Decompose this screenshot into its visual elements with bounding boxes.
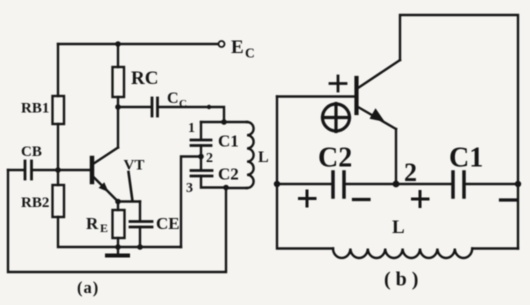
label CB: [21, 144, 42, 160]
svg-text:R: R: [86, 214, 99, 233]
label RB1: [21, 101, 49, 117]
wire main rail right segment (b): [465, 183, 518, 185]
leader line from VT label: [129, 172, 133, 201]
inductor L (b): [333, 249, 472, 259]
capacitor C2 (a): [191, 171, 212, 177]
capacitor C2 (b): [333, 172, 344, 197]
wire C1 to node 2: [200, 146, 202, 171]
label plus right of node 2: [413, 192, 429, 207]
svg-text:C1: C1: [449, 143, 483, 174]
label C2 (b): [318, 143, 352, 174]
svg-text:3: 3: [186, 181, 193, 196]
wire CB left plate to left rail: [8, 169, 24, 171]
svg-text:C2: C2: [318, 143, 352, 174]
terminal EC: [219, 41, 225, 47]
label RB2: [21, 195, 49, 211]
node 3 junction: [223, 185, 229, 191]
resistor RB1: [53, 96, 65, 124]
source polarity circle: [323, 104, 350, 132]
label plus at base: [330, 76, 346, 91]
label minus right of C2: [354, 198, 370, 201]
wire collector to CC: [118, 106, 151, 108]
wire L bottom to node 3: [226, 187, 247, 189]
label EC: [231, 37, 255, 61]
node left rail (b): [274, 181, 280, 187]
node small dot on CC wire: [207, 105, 211, 109]
wire RC bottom to collector: [117, 97, 119, 148]
capacitor C1 (b): [453, 172, 464, 197]
label RC: [131, 68, 158, 89]
ground: [107, 247, 128, 256]
transistor (b): [357, 60, 401, 129]
node RE ground: [115, 244, 121, 250]
wire left down-and-bottom loop to node 3: [8, 170, 226, 272]
label VT: [124, 158, 145, 174]
wire node2 to ground rail: [181, 157, 201, 248]
label L (b): [392, 217, 405, 238]
wire RB1 top: [57, 44, 59, 96]
wire collector loop (b): [400, 15, 518, 249]
wire C2 to node 3: [201, 176, 226, 188]
wire left branch (b): [276, 97, 278, 185]
svg-text:C1: C1: [218, 132, 239, 151]
wire CE top: [139, 202, 141, 222]
label 2 (a): [206, 151, 213, 166]
label (a): [77, 278, 99, 297]
node right rail (b): [515, 181, 521, 187]
svg-text:C2: C2: [218, 165, 239, 184]
svg-text:1: 1: [188, 121, 195, 136]
label 3: [186, 181, 193, 196]
node 2 (a): [198, 154, 204, 160]
svg-text:E: E: [100, 221, 108, 235]
svg-text:2: 2: [206, 151, 213, 166]
label CE: [156, 214, 180, 233]
svg-text:2: 2: [404, 158, 417, 187]
node 2 (b): [393, 181, 400, 188]
wire emitter rail: [117, 200, 140, 202]
svg-text:RB1: RB1: [21, 101, 49, 117]
label 1: [188, 121, 195, 136]
wire CE bottom: [139, 227, 141, 247]
wire base lead (b): [277, 95, 355, 97]
svg-text:C: C: [167, 90, 179, 107]
wire tank top: [201, 121, 247, 123]
label C1 (a): [218, 132, 239, 151]
wire CC to tank top: [159, 107, 225, 122]
resistor RE: [113, 210, 125, 238]
label 2 (b): [404, 158, 417, 187]
label plus left of C2: [300, 191, 316, 206]
wire L right connect (b): [472, 247, 518, 249]
capacitor CC: [152, 98, 158, 116]
svg-text:CE: CE: [156, 214, 180, 233]
resistor RC: [113, 67, 125, 97]
wire node1 to C1: [200, 122, 202, 139]
svg-text:(a): (a): [77, 278, 99, 297]
svg-text:RB2: RB2: [21, 195, 49, 211]
node collector CC branch: [115, 104, 121, 110]
svg-text:L: L: [258, 149, 269, 166]
wire CB right plate to base node: [33, 169, 59, 171]
label CC: [167, 90, 187, 110]
label minus right of C1: [501, 198, 517, 201]
wire RE bottom: [117, 238, 119, 247]
node CE ground: [137, 244, 143, 250]
svg-text:C: C: [245, 46, 255, 61]
wire RB2 bottom and emitter ground rail: [58, 217, 181, 247]
label L (a): [258, 149, 269, 166]
svg-text:E: E: [231, 37, 244, 58]
capacitor CE: [130, 222, 152, 228]
node collector top rail: [115, 41, 121, 47]
label RE: [86, 214, 108, 235]
wire RE top: [117, 202, 119, 211]
wire RC top: [117, 44, 119, 67]
wire top supply rail (a): [58, 43, 218, 45]
label (b): [384, 269, 423, 291]
svg-text:L: L: [392, 217, 405, 238]
wire main rail middle segment (b): [345, 183, 452, 185]
node base junction: [55, 167, 61, 173]
node emitter: [115, 199, 121, 205]
transistor VT: [92, 148, 118, 201]
wire base lead: [58, 169, 91, 171]
wire L left branch (b): [277, 184, 333, 249]
wire emitter down to node 2 (b): [395, 129, 397, 184]
inductor L (a): [247, 122, 254, 188]
label C1 (b): [449, 143, 483, 174]
resistor RB2: [53, 185, 65, 217]
label C2 (a): [218, 165, 239, 184]
svg-text:(b): (b): [384, 269, 423, 291]
wire RB2 top: [57, 170, 59, 185]
svg-text:RC: RC: [131, 68, 158, 89]
node tank top junction: [221, 119, 227, 125]
svg-text:CB: CB: [21, 144, 42, 160]
wire main rail left segment (b): [277, 183, 332, 185]
capacitor C1 (a): [191, 140, 211, 146]
svg-text:VT: VT: [124, 158, 145, 174]
capacitor CB: [25, 161, 32, 179]
wire RB1 bottom to base node: [57, 124, 59, 170]
